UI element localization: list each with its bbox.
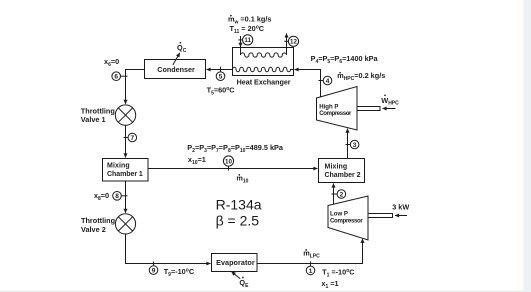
svg-text:Throttling: Throttling [81,216,115,225]
svg-text:Throttling: Throttling [81,107,115,116]
svg-text:3: 3 [353,142,357,149]
svg-text:7: 7 [130,135,134,142]
svg-text:12: 12 [290,39,297,46]
svg-text:Chamber 2: Chamber 2 [325,172,361,179]
svg-text:Valve 1: Valve 1 [81,115,106,124]
svg-text:Chamber 1: Chamber 1 [107,171,143,178]
svg-text:3 kW: 3 kW [392,202,409,211]
svg-text:9: 9 [152,268,156,275]
svg-text:R-134a: R-134a [216,197,262,213]
svg-text:β = 2.5: β = 2.5 [216,213,260,229]
svg-text:6: 6 [114,74,118,81]
svg-text:Compressor: Compressor [319,110,352,117]
svg-text:Heat Exchanger: Heat Exchanger [237,77,291,86]
svg-text:Condenser: Condenser [157,65,195,74]
svg-text:Valve 2: Valve 2 [81,225,106,234]
svg-text:2: 2 [340,191,344,198]
svg-text:Evaporator: Evaporator [216,258,255,267]
svg-text:8: 8 [115,193,119,200]
svg-text:Compressor: Compressor [330,217,363,224]
svg-text:11: 11 [244,37,251,44]
svg-text:Mixing: Mixing [325,164,348,171]
svg-text:5: 5 [219,74,223,81]
svg-text:1: 1 [309,268,313,275]
svg-text:10: 10 [225,158,232,165]
svg-text:Mixing: Mixing [107,163,130,170]
svg-text:4: 4 [326,78,330,85]
